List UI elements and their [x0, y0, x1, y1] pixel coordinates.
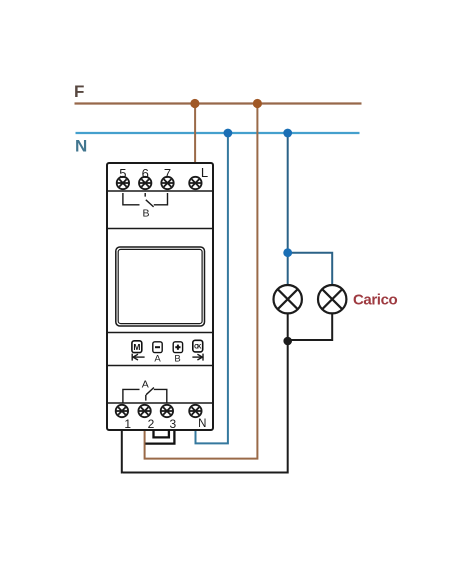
svg-text:3: 3	[170, 417, 177, 431]
screw terminal 6	[139, 177, 151, 189]
icon arrow to-end under button OK	[192, 354, 203, 361]
display screen	[116, 247, 205, 326]
wire blue branch to lamp 2	[288, 253, 333, 285]
svg-text:2: 2	[148, 417, 155, 431]
screw terminal 1	[116, 405, 128, 417]
svg-text:N: N	[75, 137, 87, 156]
button OK	[193, 340, 203, 352]
net F bus line	[75, 102, 362, 104]
screw terminal 3	[161, 405, 173, 417]
svg-text:7: 7	[164, 166, 171, 181]
screw terminal L	[189, 177, 201, 189]
screw terminal N	[189, 405, 201, 417]
svg-text:N: N	[198, 418, 206, 430]
wire blue N bus to lamps	[287, 133, 289, 285]
svg-text:Carico: Carico	[353, 292, 398, 309]
junction blue node N/termN	[224, 129, 233, 138]
body divider above buttons	[107, 332, 213, 334]
net N bus line	[76, 132, 360, 134]
svg-text:1: 1	[124, 417, 131, 431]
svg-text:F: F	[74, 82, 84, 101]
button minus	[153, 342, 162, 353]
svg-text:M: M	[133, 342, 140, 352]
timer body outline	[107, 163, 213, 430]
junction blue node N/lamps	[283, 129, 292, 138]
junction brown node F/L	[190, 99, 199, 108]
screw terminal 2	[138, 405, 150, 417]
button plus	[173, 342, 182, 353]
junction brown node F/term2	[253, 99, 262, 108]
svg-text:5: 5	[119, 166, 126, 181]
wire black return to terminal 1	[122, 341, 288, 474]
relay contact A	[123, 388, 167, 403]
svg-text:6: 6	[142, 166, 149, 181]
svg-text:A: A	[154, 353, 161, 364]
body divider bottom terminals	[107, 402, 213, 404]
svg-text:B: B	[142, 207, 149, 219]
icon arrow to-start under button M	[132, 354, 144, 361]
body divider top terminals	[107, 190, 213, 192]
junction black node lamp returns	[283, 337, 292, 346]
wire black lamp 2 return	[289, 313, 333, 340]
screw terminal 5	[117, 177, 129, 189]
svg-text:OK: OK	[194, 345, 202, 351]
svg-text:L: L	[201, 165, 208, 180]
button M	[132, 341, 142, 353]
screw terminal 7	[161, 177, 173, 189]
relay contact B	[123, 193, 168, 207]
body divider upper mid	[107, 228, 213, 230]
lamp L1	[274, 285, 302, 313]
wire black bracket to terminal 3	[145, 431, 174, 444]
lamp L2	[318, 285, 346, 313]
wire black loop under terminal 3	[154, 430, 169, 437]
body divider below buttons	[107, 365, 213, 367]
svg-text:B: B	[174, 353, 180, 364]
wire blue N bus to terminal N	[196, 133, 228, 444]
wire black lamp 1 return	[287, 313, 289, 341]
svg-text:A: A	[142, 378, 149, 390]
junction blue node on lamps branch	[283, 248, 292, 257]
wire brown F to terminal 2	[145, 104, 258, 460]
wire brown F to terminal L	[194, 104, 196, 178]
